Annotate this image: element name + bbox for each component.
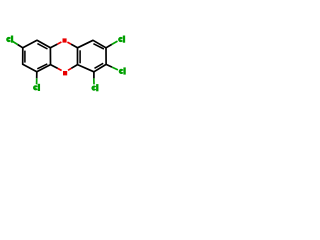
left ring double bond inner line (top-right slope) [37, 44, 47, 49]
C-O bond: right-bottom carbon to bottom O, black half [71, 65, 77, 69]
Cl bond top-left: black half [18, 45, 23, 48]
Cl bond mid-right: black half [106, 64, 112, 67]
Cl label mid-right [120, 68, 125, 74]
Cl bond top-right: black half [106, 44, 112, 47]
right benzene ring outline [78, 40, 107, 72]
Cl label top-left [7, 36, 12, 42]
Cl label top-right [119, 36, 124, 42]
O atom label (top) [63, 38, 67, 42]
left ring double bond inner line (bottom-right slope) [37, 64, 47, 69]
Cl bond bottom-right: black half [93, 72, 95, 79]
C-O bond: right-top, red half [67, 42, 71, 44]
Cl bond top-left: green half [13, 41, 18, 44]
right ring double bond inner line (bottom-right slope) [95, 63, 104, 68]
Cl bond bottom-left: black half [36, 72, 38, 79]
O atom label (bottom) [63, 71, 67, 75]
Cl bond mid-right: green half [112, 67, 118, 70]
C-O bond: left-bottom carbon to bottom O, black half [51, 65, 58, 69]
Cl label bottom-left [34, 84, 39, 90]
C-O bond: left-top carbon to top O, black half [50, 44, 57, 48]
Cl bond top-right: green half [112, 41, 118, 44]
Cl label bottom-right [93, 85, 98, 91]
left benzene ring outline [23, 40, 51, 72]
C-O bond: left-top, red half [57, 42, 61, 44]
left ring double bond inner line (left edge) [24, 51, 26, 63]
C-O bond: right-bottom, red half [68, 68, 71, 70]
C-O bond: right-top carbon to top O, black half [71, 44, 78, 48]
right ring double bond inner line (top-right slope) [93, 44, 104, 49]
background [0, 0, 130, 130]
C-O bond: left-bottom, red half [58, 68, 62, 70]
Cl bond bottom-right: green half [93, 78, 95, 84]
right ring double bond inner line (fusion edge) [79, 50, 81, 63]
Cl bond bottom-left: green half [36, 78, 38, 84]
